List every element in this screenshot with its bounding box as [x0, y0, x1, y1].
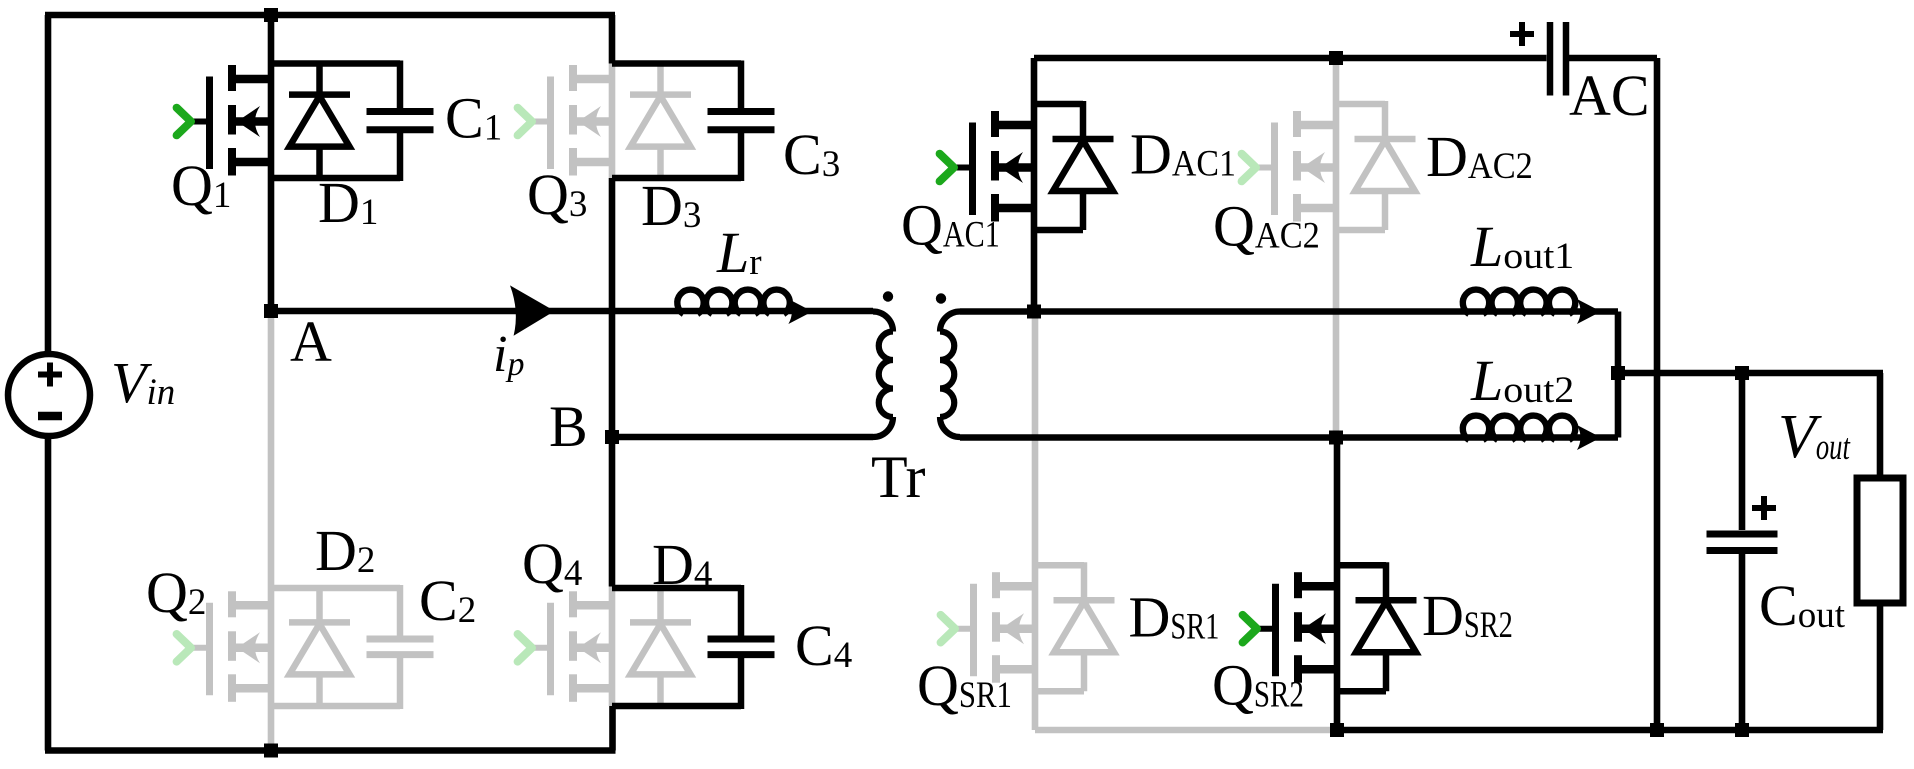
- svg-text:A: A: [290, 309, 332, 374]
- svg-text:Tr: Tr: [871, 444, 926, 510]
- svg-text:B: B: [549, 394, 588, 459]
- svg-text:AC: AC: [1569, 63, 1650, 128]
